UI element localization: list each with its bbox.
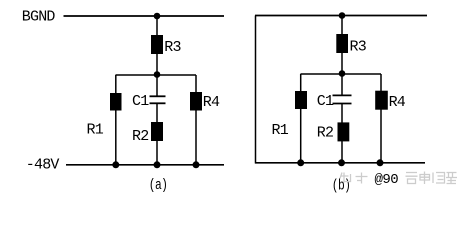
- svg-text:(b): (b): [332, 177, 351, 194]
- node junction bottom mid: [154, 161, 161, 168]
- resistor R4: [190, 92, 202, 111]
- wire mid branch upper: [156, 75, 158, 97]
- watermark char zhi: [340, 173, 351, 183]
- node junction bottom right: [377, 159, 384, 166]
- node B2 junction: [339, 70, 346, 77]
- svg-text:R4: R4: [389, 94, 406, 111]
- wire right branch: [195, 75, 197, 165]
- wire bottom rail -48V: [66, 164, 224, 166]
- resistor R2: [338, 122, 350, 141]
- wire right branch: [380, 74, 382, 163]
- svg-text:@90: @90: [375, 172, 399, 188]
- svg-text:BGND: BGND: [22, 9, 56, 26]
- node junction bottom left: [112, 161, 119, 168]
- resistor R3: [336, 34, 348, 53]
- svg-text:R1: R1: [87, 121, 104, 138]
- resistor R2: [151, 122, 163, 141]
- svg-text:R3: R3: [350, 38, 367, 55]
- node junction bottom left: [297, 159, 304, 166]
- wire top rail: [255, 15, 427, 17]
- watermark char hu: [356, 173, 368, 184]
- wire R2 to bottom rail: [341, 141, 343, 163]
- svg-text:(a): (a): [149, 177, 168, 194]
- wire left branch: [300, 74, 302, 163]
- svg-text:R1: R1: [272, 122, 289, 139]
- watermark char dian: [420, 172, 430, 185]
- svg-text:R2: R2: [132, 128, 148, 145]
- node junction bottom mid: [338, 159, 345, 166]
- resistor R3: [151, 35, 163, 54]
- svg-text:C1: C1: [317, 93, 334, 110]
- wire sub-bus bar: [116, 74, 197, 76]
- node junction bottom right: [193, 161, 200, 168]
- resistor R4: [375, 91, 388, 110]
- wire sub-bus bar: [301, 73, 382, 75]
- watermark char hou: [406, 173, 418, 184]
- watermark zhihu @90hou... (light gray): [340, 172, 457, 185]
- svg-text:C1: C1: [132, 93, 149, 110]
- wire mid branch upper: [341, 74, 343, 96]
- svg-text:R4: R4: [203, 94, 220, 111]
- resistor R1: [295, 91, 307, 109]
- watermark char nao: [433, 173, 445, 184]
- svg-text:R3: R3: [164, 39, 181, 56]
- watermark char xing: [446, 173, 457, 184]
- wire A1 to R3: [156, 16, 158, 36]
- node A1 junction on BGND rail: [154, 13, 161, 20]
- capacitor C1: [150, 96, 166, 103]
- wire C1 to R2: [341, 104, 343, 124]
- node B1 junction on top rail: [339, 12, 346, 19]
- wire top rail BGND: [64, 15, 225, 17]
- wire B1 to R3: [341, 16, 343, 36]
- capacitor C1: [333, 95, 352, 103]
- wire R2 to bottom rail: [156, 141, 158, 165]
- resistor R1: [110, 93, 122, 111]
- wire R3 to node A2: [156, 54, 158, 75]
- wire bottom rail: [255, 162, 425, 164]
- wire left branch: [115, 75, 117, 165]
- wire C1 to R2: [156, 103, 158, 123]
- svg-text:-48V: -48V: [26, 156, 60, 173]
- svg-text:R2: R2: [317, 125, 333, 142]
- wire left side vertical: [255, 16, 257, 164]
- node A2 junction: [154, 71, 161, 78]
- wire R3 to node B2: [341, 53, 343, 74]
